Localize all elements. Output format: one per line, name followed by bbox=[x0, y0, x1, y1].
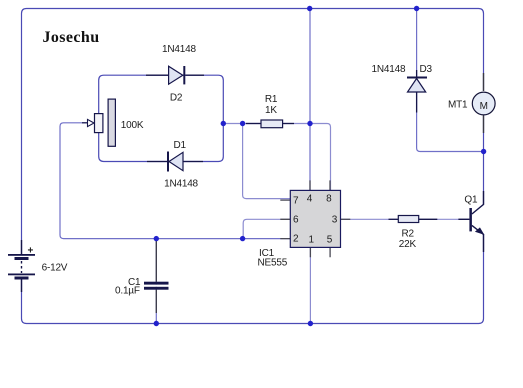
svg-text:D1: D1 bbox=[174, 140, 187, 151]
wire: loop to R1 to pin4 vertical at x=310 bbox=[223, 123, 310, 125]
wire: right rail emitter-to-bottom + bottom rail + battery bottom bbox=[22, 234, 484, 324]
svg-text:1: 1 bbox=[309, 234, 315, 245]
junction node: bottom rail C1 bbox=[154, 321, 159, 326]
junction node: bottom rail pin1 bbox=[308, 321, 313, 326]
wire: R1 left junction down to IC pin 7 bbox=[243, 124, 291, 199]
svg-text:4: 4 bbox=[307, 194, 313, 205]
wire: IC pin 6 link down to pin2 line bbox=[243, 219, 290, 238]
wire: pot/diode loop box bbox=[99, 75, 224, 161]
svg-text:2: 2 bbox=[293, 233, 299, 244]
svg-text:MT1: MT1 bbox=[448, 100, 468, 111]
svg-text:0.1µF: 0.1µF bbox=[115, 286, 140, 297]
IC1 NE555 timer bbox=[258, 180, 351, 268]
svg-text:1N4148: 1N4148 bbox=[372, 64, 406, 75]
svg-text:M: M bbox=[480, 101, 488, 112]
svg-text:+: + bbox=[28, 246, 34, 257]
potentiometer VR1 100K bbox=[82, 99, 144, 146]
svg-text:R2: R2 bbox=[402, 229, 415, 240]
capacitor C1 0.1uF bbox=[115, 241, 170, 313]
junction node: R1 right / pin4 line bbox=[307, 121, 312, 126]
svg-text:7: 7 bbox=[293, 195, 299, 206]
junction node: C1 top bbox=[154, 236, 159, 241]
junction node: top rail x=417 bbox=[414, 6, 419, 11]
transistor Q1 bbox=[458, 191, 483, 252]
wire: R1 right junction to pin 8 bbox=[310, 124, 331, 191]
junction node: R1 left / pin7 drop bbox=[240, 121, 245, 126]
junction node: pin6/pin2 line bbox=[240, 236, 245, 241]
wire: IC pin 3 to R2 to Q1 base bbox=[341, 218, 470, 220]
svg-text:1K: 1K bbox=[265, 105, 277, 116]
diode D3 1N4148 bbox=[372, 64, 433, 112]
resistor R2 22K bbox=[389, 216, 438, 251]
svg-text:1N4148: 1N4148 bbox=[162, 44, 196, 55]
diode D1 1N4148 bbox=[147, 140, 203, 190]
diode D2 1N4148 bbox=[146, 44, 204, 103]
wire: pot wiper down to IC pin 2 line bbox=[60, 123, 290, 239]
wire: top rail / left rail / right rail frame bbox=[22, 9, 484, 256]
svg-text:Josechu: Josechu bbox=[43, 29, 100, 46]
wire: IC pin 1 down to bottom rail bbox=[309, 247, 311, 323]
svg-text:Q1: Q1 bbox=[464, 195, 478, 206]
svg-text:100K: 100K bbox=[121, 120, 144, 131]
junction node: top rail x=310 bbox=[307, 6, 312, 11]
svg-text:D3: D3 bbox=[420, 64, 433, 75]
svg-text:6: 6 bbox=[293, 215, 299, 226]
resistor R1 1K bbox=[246, 94, 294, 128]
svg-text:1N4148: 1N4148 bbox=[164, 179, 198, 190]
svg-text:D2: D2 bbox=[170, 92, 183, 103]
wire: D3 branch from top rail down and right to motor line bbox=[417, 9, 484, 152]
svg-text:R1: R1 bbox=[265, 94, 278, 105]
battery B1 6-12V bbox=[8, 240, 68, 292]
junction node: loop right / R1 row bbox=[221, 121, 226, 126]
svg-text:3: 3 bbox=[332, 215, 338, 226]
wire: C1 vertical drop bbox=[155, 239, 157, 324]
junction node: D3 / motor line bbox=[481, 149, 486, 154]
svg-text:22K: 22K bbox=[399, 239, 417, 250]
svg-text:8: 8 bbox=[326, 194, 332, 205]
motor MT1 bbox=[448, 73, 495, 133]
svg-text:NE555: NE555 bbox=[258, 258, 288, 269]
svg-text:5: 5 bbox=[327, 234, 333, 245]
wire: right rail motor-to-transistor segment bbox=[483, 116, 485, 205]
svg-text:6-12V: 6-12V bbox=[42, 263, 68, 274]
